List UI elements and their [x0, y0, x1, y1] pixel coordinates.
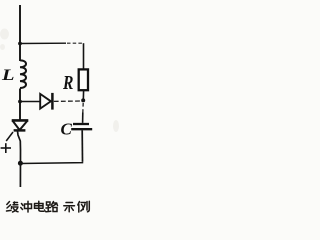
capacitor C — [71, 124, 92, 129]
char 例 — [78, 201, 90, 212]
wire top horizontal dashed tail — [67, 42, 84, 44]
node junction of bottom wire and left rail — [18, 161, 23, 166]
label + gate polarity mark — [1, 143, 11, 153]
char 缓 — [7, 202, 19, 213]
svg-text:C: C — [61, 119, 73, 138]
thyristor V (SCR) triangle with cathode bar — [12, 120, 29, 130]
wire left rail between inductor and thyristor — [19, 89, 21, 120]
node junction of top wire and left rail — [18, 42, 22, 46]
char 电 — [35, 201, 45, 211]
inductor L — [20, 60, 26, 88]
wire from left rail to diode — [20, 101, 40, 103]
node junction of diode branch and right rail — [81, 98, 85, 102]
wire right rail below resistor — [82, 90, 84, 101]
node junction of diode branch and left rail — [18, 100, 22, 104]
wire bottom horizontal — [20, 162, 82, 164]
wire thyristor gate lead — [6, 132, 13, 141]
char 路 — [46, 202, 58, 212]
caption 缓冲电路示例 drawn as strokes — [7, 201, 90, 212]
scan smudge noise — [0, 29, 119, 133]
svg-text:R: R — [62, 71, 73, 93]
wire diode to right rail (dashed) — [54, 100, 82, 102]
wire left rail top segment — [19, 5, 21, 61]
wire right rail below capacitor down to bottom corner — [81, 130, 83, 162]
wire top horizontal — [20, 42, 66, 44]
svg-text:L: L — [1, 66, 15, 83]
wire thyristor cathode lead down — [18, 131, 21, 187]
noise tick between characters — [44, 209, 46, 212]
resistor R — [79, 69, 88, 90]
wire right rail dashed segment above capacitor — [82, 103, 84, 113]
wire right rail solid above capacitor — [82, 113, 84, 123]
wire right rail top segment — [83, 43, 85, 69]
diode D (freewheel), anode left, cathode bar right — [40, 93, 52, 110]
char 冲 — [21, 201, 32, 212]
char 示 — [64, 203, 75, 212]
